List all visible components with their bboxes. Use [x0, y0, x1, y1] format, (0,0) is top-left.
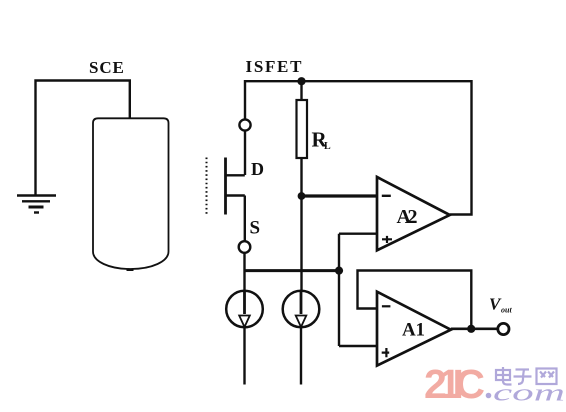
svg-text:21IC: 21IC — [424, 361, 485, 407]
svg-text:L: L — [324, 141, 331, 152]
svg-text:D: D — [251, 159, 264, 179]
svg-text:A1: A1 — [402, 320, 425, 341]
svg-text:ISFET: ISFET — [246, 57, 304, 76]
svg-text:A2: A2 — [397, 206, 418, 228]
svg-text:SCE: SCE — [89, 58, 125, 77]
svg-text:out: out — [501, 306, 512, 315]
svg-text:S: S — [250, 218, 261, 239]
